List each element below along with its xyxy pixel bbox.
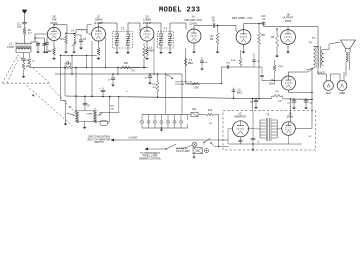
capacitor C19 — [304, 98, 313, 109]
inductor L1 loop — [7, 42, 32, 53]
wire det line — [186, 83, 222, 85]
transformer T5 power — [260, 113, 277, 141]
ground C4 — [45, 50, 49, 53]
tube V2 IF amp — [92, 27, 106, 41]
wire osc join — [65, 33, 76, 34]
wire V3 plate — [140, 23, 147, 31]
capacitor C4 — [45, 36, 49, 50]
capacitor C21 — [226, 63, 231, 69]
capacitor C20 — [21, 59, 29, 63]
svg-text:VOLUME CONTROL: VOLUME CONTROL — [175, 84, 196, 86]
jack J1 — [204, 148, 208, 152]
resistor R1 — [23, 28, 32, 36]
resistor R3 — [60, 34, 67, 51]
label wires — [317, 72, 325, 75]
svg-text:C5: C5 — [83, 37, 87, 41]
junction dots — [143, 67, 145, 69]
svg-text:470K: 470K — [279, 66, 284, 68]
resistor R18 — [22, 63, 29, 75]
power unit dashed box — [223, 111, 316, 151]
wire vol feed — [61, 101, 72, 119]
ground T3 — [159, 51, 172, 54]
wire V1 cathode down — [53, 41, 55, 48]
svg-text:VIBRATOR: VIBRATOR — [234, 115, 246, 118]
wire bplus bus — [64, 67, 312, 100]
capacitor C25 — [200, 57, 208, 70]
wire T3 out — [170, 23, 186, 34]
inductor L5 osc — [72, 34, 76, 51]
ground C5 — [79, 46, 83, 49]
svg-text:R3: R3 — [60, 37, 64, 41]
svg-text:1M: 1M — [210, 38, 213, 41]
wire mid drop x92 — [91, 41, 93, 97]
wire V1 top to osc — [53, 24, 67, 25]
ground V7 — [0, 0, 1, 1]
resistor R13 ballast — [191, 109, 198, 117]
label V1 — [50, 15, 59, 25]
ground V6 — [286, 50, 290, 53]
resistor R21 — [231, 50, 242, 67]
wire box right entry — [295, 124, 312, 129]
ground R3 — [64, 50, 68, 53]
resistor R4 — [97, 48, 100, 56]
tube V8 vibrator — [233, 112, 249, 136]
svg-text:SWITCH: SWITCH — [94, 141, 104, 144]
wire V6 plate — [312, 27, 318, 48]
wire T2 in — [99, 23, 118, 34]
wire drop x252 — [252, 98, 254, 111]
potentiometer R11 tone — [86, 108, 102, 123]
wire V3 to T3 — [147, 23, 161, 34]
ground R7 — [216, 50, 220, 53]
wire V5 grid in — [236, 31, 238, 33]
wire V7 grid — [262, 77, 282, 80]
resistor R24 — [28, 53, 36, 68]
wire T3 bottoms — [161, 45, 170, 51]
wire V6 cathode — [287, 44, 289, 50]
svg-text:270K: 270K — [193, 87, 199, 89]
svg-text:12AT6: 12AT6 — [189, 21, 197, 25]
wire T4 prim top — [314, 46, 319, 49]
svg-text:R8: R8 — [261, 33, 265, 37]
wire v9 plate up — [290, 103, 292, 122]
ground V3 — [145, 57, 149, 60]
svg-text:100: 100 — [17, 24, 22, 28]
wire vol bottom — [64, 118, 68, 125]
tube V3 2nd IF — [140, 27, 154, 41]
capacitor C10 electrolytic — [99, 88, 128, 98]
wire drop x182 — [181, 74, 183, 115]
wire t5 to v9 — [277, 128, 282, 131]
svg-text:DIMMER CONTROL: DIMMER CONTROL — [139, 157, 162, 160]
dashed loop outline — [2, 55, 50, 83]
capacitor C22 — [252, 53, 260, 67]
svg-text:R14: R14 — [208, 110, 213, 112]
svg-text:1M: 1M — [26, 66, 29, 68]
wire T2 out — [128, 23, 140, 34]
wire v8 left — [228, 129, 233, 144]
svg-text:MEG: MEG — [188, 63, 193, 65]
svg-text:1A: 1A — [191, 15, 194, 19]
resistor R16 series — [271, 91, 283, 103]
wire V5 cathode — [243, 44, 245, 50]
svg-text:.05: .05 — [211, 19, 215, 22]
variable capacitor C3 — [42, 38, 46, 50]
wire v9 top join — [290, 98, 292, 103]
wire tone bottom — [77, 122, 95, 129]
wire tone hook — [95, 96, 110, 122]
wire V2 plate up — [98, 23, 100, 27]
ground V2 cathode — [97, 57, 101, 60]
dashed lead 1 — [27, 86, 73, 127]
svg-text:35A5: 35A5 — [285, 19, 292, 23]
ground V5 — [242, 50, 246, 53]
ground V1 cathode — [52, 57, 56, 60]
ground C2 — [36, 50, 40, 53]
resistor R12 — [120, 62, 140, 69]
capacitor C27 — [254, 67, 264, 77]
tube V4 detector — [187, 29, 201, 43]
wire to V6 grid — [264, 27, 319, 30]
wire y67 line — [222, 66, 255, 68]
capacitor C17 — [250, 98, 258, 109]
wire x865 link — [86, 55, 87, 68]
wire V7 plate — [289, 68, 314, 76]
heater string sockets — [140, 115, 187, 132]
switch S1 lever — [203, 138, 229, 147]
svg-text:6' LEAD: 6' LEAD — [129, 136, 138, 139]
wire bus drop1 — [71, 55, 73, 75]
potentiometer R10 volume — [67, 112, 79, 123]
svg-text:DET. AMPL. 7C6: DET. AMPL. 7C6 — [232, 16, 253, 20]
arrow onoff — [166, 75, 173, 79]
svg-text:470K: 470K — [231, 60, 237, 62]
svg-text:233: 233 — [187, 7, 201, 15]
inductor L4 osc coil — [71, 29, 87, 34]
wire dial line — [100, 96, 120, 112]
capacitor C15 — [261, 15, 266, 26]
svg-text:R2: R2 — [48, 49, 52, 53]
svg-text:ON-OFF SW. ON: ON-OFF SW. ON — [175, 81, 192, 83]
wire det drop — [185, 48, 187, 84]
wire V5 out — [262, 22, 264, 24]
resistor R22 — [64, 66, 72, 69]
lamp I2 — [337, 78, 347, 95]
resistor R6 — [143, 43, 155, 68]
capacitor C23 — [232, 88, 243, 99]
wire V7 cathode — [289, 90, 313, 93]
ground C3 — [43, 50, 47, 53]
label lead left — [88, 136, 111, 145]
wire speaker leads — [324, 42, 341, 66]
ground R8 — [0, 0, 1, 1]
wire osc top — [66, 25, 67, 34]
svg-text:TONE: TONE — [86, 114, 93, 116]
svg-text:MODEL: MODEL — [159, 7, 182, 15]
resistor R15 — [152, 73, 159, 98]
wire loop to grid — [31, 34, 48, 42]
svg-text:33K: 33K — [124, 62, 129, 65]
tube V1 converter — [47, 27, 60, 40]
svg-text:4.7: 4.7 — [28, 31, 32, 35]
svg-text:PILOT LAMP: PILOT LAMP — [176, 150, 190, 153]
svg-text:L4: L4 — [71, 29, 74, 33]
label V5 — [232, 16, 253, 20]
wire drops to volume — [60, 55, 86, 111]
wire voice coil down — [346, 62, 350, 76]
wire V2 cathode — [98, 41, 100, 48]
fuse F1 — [193, 148, 203, 154]
wire v8 ground — [239, 137, 243, 144]
tube V6 output — [281, 30, 296, 45]
resistor R25 — [273, 60, 284, 81]
lamp I1 — [324, 78, 334, 95]
capacitor C16 buffer — [251, 134, 260, 151]
wire osc out — [87, 25, 92, 34]
wire T4 prim bot — [306, 68, 314, 70]
wire tuning link — [34, 37, 44, 38]
svg-text:14B8: 14B8 — [339, 92, 345, 95]
wire V2 grid — [88, 33, 92, 35]
wire ground bus left — [61, 55, 97, 57]
wire tone top — [75, 110, 98, 112]
svg-text:47K: 47K — [152, 84, 156, 86]
label V2 — [94, 15, 103, 25]
label dimmer — [139, 152, 162, 161]
label V4 — [184, 15, 202, 26]
tube V7 output — [282, 76, 296, 90]
wire V3 screen drop — [153, 37, 155, 75]
wire det riser — [221, 67, 222, 84]
capacitor C9 — [144, 73, 152, 84]
transformer T4 output — [308, 41, 323, 69]
ground R9 — [275, 54, 279, 57]
resistor R14 — [198, 110, 219, 126]
label onoff — [175, 81, 196, 86]
capacitor C11 — [83, 104, 91, 111]
tube V5 det amp — [236, 30, 251, 45]
wire V4 cathode — [193, 43, 195, 50]
label V6 — [282, 12, 293, 23]
wire heater feed — [188, 115, 219, 147]
ground V4 — [192, 50, 196, 53]
capacitor C8 — [211, 17, 215, 28]
wire bus left2 — [30, 67, 149, 69]
wire V5 plate up — [244, 24, 263, 30]
resistor R2 — [48, 48, 55, 56]
svg-text:LOOP: LOOP — [7, 45, 14, 49]
capacitor C5 — [74, 35, 87, 46]
wire right vertical — [311, 68, 313, 124]
wire V3 cathode — [146, 41, 148, 48]
label pilot lamp — [176, 148, 190, 153]
wire V4 plate — [194, 26, 213, 30]
svg-text:1100: 1100 — [278, 101, 283, 103]
resistor R5 — [146, 48, 149, 56]
label V7 — [269, 78, 276, 85]
wire V2 screen drop — [104, 37, 106, 69]
capacitor C18 — [287, 98, 296, 109]
resistor R9 — [271, 28, 278, 54]
label V3 — [143, 15, 152, 25]
wire c16 top — [252, 111, 254, 134]
wire dimmer line — [145, 148, 166, 150]
ground loop chain — [22, 75, 26, 78]
ground T2 — [115, 51, 130, 54]
capacitor C1 — [17, 22, 27, 29]
svg-text:TYPE 44: TYPE 44 — [178, 148, 188, 150]
switch S2 — [165, 144, 182, 150]
wire v9 cathode — [289, 135, 312, 144]
lamp pilot — [183, 142, 197, 148]
wire C8 to V5 — [215, 26, 236, 32]
dashed lead 2 — [50, 86, 77, 114]
wire lamps up — [318, 62, 346, 78]
title MODEL 233 — [159, 7, 200, 15]
wire avc drop — [117, 67, 119, 75]
ground L5 — [72, 50, 76, 53]
tube V9 rectifier — [282, 112, 296, 135]
svg-text:MEG: MEG — [237, 92, 242, 94]
transformer T3 2nd IF — [158, 27, 174, 48]
wire if drop — [165, 73, 166, 114]
svg-text:BLK: BLK — [312, 38, 317, 40]
wire T2 bottoms — [117, 45, 128, 51]
resistor R20 — [192, 82, 200, 89]
resistor R19 — [184, 58, 193, 66]
resistor R7 — [210, 25, 219, 50]
wire avc bus — [55, 70, 182, 75]
wire loop bottom — [16, 53, 30, 59]
wire t5 left — [248, 128, 261, 131]
svg-text:35A5: 35A5 — [269, 81, 276, 85]
wire V1 plate — [53, 25, 55, 28]
svg-text:14A7: 14A7 — [326, 92, 332, 95]
speaker voice coil — [346, 52, 350, 62]
wire 6ft lead — [111, 136, 228, 141]
speaker — [341, 40, 356, 52]
resistor R8 — [258, 23, 266, 100]
dial lamp holder — [100, 112, 110, 125]
wire antenna to loop — [24, 35, 26, 43]
transformer T2 1st IF — [113, 27, 133, 48]
antenna — [22, 10, 27, 23]
trimmer capacitor C2 — [35, 42, 40, 50]
capacitor C26 — [65, 61, 71, 67]
wire box bottom line — [229, 143, 303, 145]
svg-text:MEG: MEG — [149, 50, 155, 53]
capacitor C24 — [108, 73, 115, 86]
ground pilot — [193, 154, 196, 158]
